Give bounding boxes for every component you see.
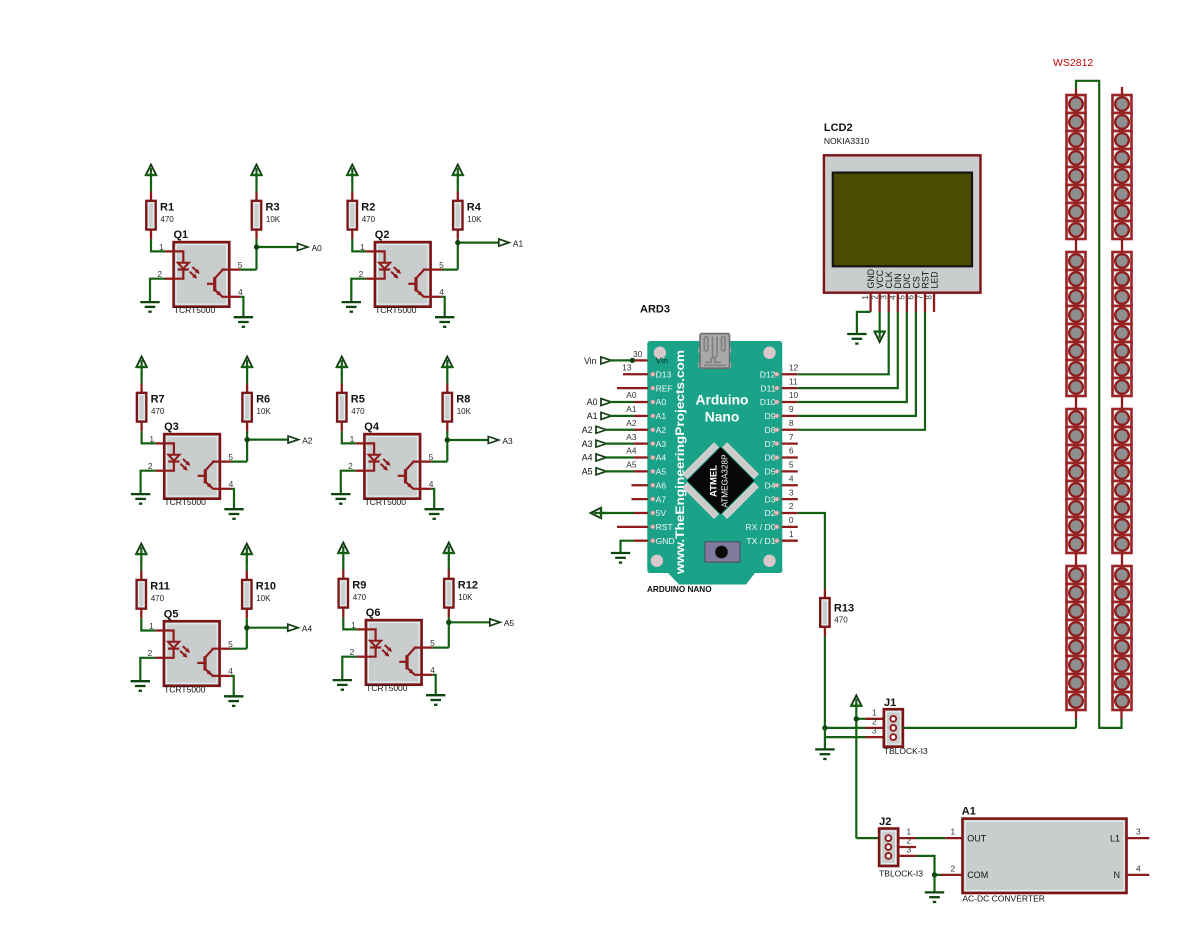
svg-text:470: 470: [151, 407, 165, 416]
wire A4 flag to pin: [605, 456, 634, 458]
right strip bottom stub: [1120, 710, 1122, 719]
ground under Q6 pin 2: [333, 679, 352, 681]
wire Q4 pin 5 to R8: [431, 461, 447, 463]
J1 pin 2 stub: [866, 727, 885, 729]
svg-text:ATMEL: ATMEL: [709, 465, 720, 497]
svg-text:A1: A1: [513, 238, 524, 248]
svg-text:A6: A6: [656, 480, 667, 490]
wire J1 pin1: [856, 718, 865, 720]
svg-text:0: 0: [789, 515, 794, 525]
svg-text:1: 1: [951, 827, 956, 837]
wire R12 to node A5 and Q6 pin 5: [448, 617, 450, 648]
svg-text:4: 4: [789, 473, 794, 483]
Q1 emitted light arrows: [192, 267, 198, 273]
svg-text:2: 2: [789, 501, 794, 511]
wire R3 to node A0 and Q1 pin 5: [255, 239, 257, 270]
wire R9 to Q6 pin 1: [343, 617, 357, 629]
svg-text:TCRT5000: TCRT5000: [164, 497, 206, 507]
resistor R13 470: [824, 589, 826, 599]
svg-text:J1: J1: [884, 697, 896, 709]
svg-text:LCD2: LCD2: [824, 122, 853, 134]
svg-text:9: 9: [789, 404, 794, 414]
Q2 pin 1: [366, 250, 375, 252]
svg-text:A2: A2: [302, 435, 313, 445]
svg-text:Q2: Q2: [375, 229, 390, 241]
svg-text:3: 3: [872, 726, 877, 736]
pin pads: [651, 372, 655, 376]
optocoupler Q2 TCRT5000 body: [375, 242, 431, 307]
svg-text:470: 470: [834, 616, 848, 625]
svg-text:10: 10: [789, 390, 799, 400]
svg-text:2: 2: [870, 295, 879, 300]
svg-text:Nano: Nano: [705, 410, 740, 425]
svg-text:30: 30: [633, 349, 643, 359]
wire node A1 to output flag: [458, 242, 499, 244]
output flag A0: [298, 244, 308, 251]
svg-text:7: 7: [916, 295, 925, 300]
pin D4 stub: [782, 484, 798, 486]
LCD pin 3 stub: [888, 293, 890, 312]
pin D12 stub: [782, 373, 798, 375]
power symbol (down) at LCD VCC: [879, 312, 881, 325]
reset button: [705, 542, 740, 562]
pin A0 stub: [634, 401, 648, 403]
wire Q3 pin 4 to ground: [231, 489, 234, 509]
svg-text:N: N: [1114, 870, 1121, 880]
Q3 emitted light arrows: [183, 459, 189, 465]
wire R11 to Q5 pin 1: [141, 618, 155, 630]
ground under Q3 pin 2: [131, 493, 150, 495]
svg-text:5: 5: [228, 452, 233, 462]
svg-text:TCRT5000: TCRT5000: [366, 683, 408, 693]
pin D11 stub: [782, 387, 798, 389]
svg-text:Q4: Q4: [364, 421, 380, 433]
wire Q2 pin 4 to ground: [442, 297, 445, 317]
svg-text:5: 5: [429, 452, 434, 462]
wire Vin flag to pin 30: [610, 359, 633, 361]
Q2 internal LED: [375, 251, 384, 262]
wire Q5 pin 4 to ground: [231, 676, 234, 696]
svg-text:A5: A5: [656, 467, 667, 477]
Q2 pin 4: [430, 296, 441, 298]
wire LCD CS to Arduino D9: [798, 312, 916, 416]
Q5 emitted light arrows: [183, 646, 189, 652]
svg-text:6: 6: [789, 446, 794, 456]
Q1 pin 2: [165, 278, 174, 280]
svg-text:A1: A1: [626, 404, 637, 414]
wire power to J1 pin 1 and down to J2: [855, 713, 857, 838]
junction node A3: [445, 437, 450, 442]
LED group 4: [1113, 566, 1132, 584]
svg-text:1: 1: [789, 529, 794, 539]
resistor R11 470: [140, 560, 142, 571]
LCD pin 2 stub: [879, 293, 881, 312]
A1 pin L1 stub: [1127, 837, 1150, 839]
svg-text:D11: D11: [760, 383, 775, 393]
wire Q1 pin 4 to ground: [240, 297, 243, 317]
svg-text:A2: A2: [626, 418, 637, 428]
svg-text:A2: A2: [582, 425, 593, 435]
svg-text:RX / D0: RX / D0: [745, 522, 775, 532]
svg-text:D7: D7: [765, 439, 776, 449]
wire R6 to node A2 and Q3 pin 5: [246, 431, 248, 462]
wire R4 to node A1 and Q2 pin 5: [457, 239, 459, 270]
Q2 pin 2: [366, 278, 375, 280]
output flag A2: [288, 436, 298, 443]
wire GND pin to ground: [621, 541, 635, 553]
LED group 2: [1113, 252, 1132, 270]
strip link stub: [1075, 396, 1077, 409]
LCD pin 5 stub: [906, 293, 908, 312]
Q4 pin 2: [356, 470, 365, 472]
svg-text:1: 1: [360, 242, 365, 252]
power symbol (VCC) above R9: [338, 543, 348, 553]
ground under Q4 pin 4: [425, 508, 444, 510]
svg-text:4: 4: [228, 666, 233, 676]
svg-text:13: 13: [622, 362, 632, 372]
Q5 internal phototransistor: [203, 656, 206, 670]
svg-text:R9: R9: [352, 580, 366, 592]
svg-text:LED: LED: [929, 271, 939, 288]
Q6 internal LED: [366, 629, 375, 640]
Q5 pin 1: [155, 629, 164, 631]
wire Q2 pin 2 to ground: [351, 279, 366, 302]
ground below A1: [925, 891, 944, 893]
pin A1 stub: [634, 415, 648, 417]
pin D5 stub: [782, 470, 798, 472]
wire LCD DIN to Arduino D11: [798, 312, 898, 388]
svg-text:AC-DC CONVERTER: AC-DC CONVERTER: [962, 894, 1045, 904]
pin D2 stub: [782, 512, 798, 514]
svg-text:Vin: Vin: [584, 356, 597, 366]
Q2 emitted light arrows: [394, 267, 400, 273]
wire A2 flag to pin: [605, 429, 634, 431]
pin A5 stub: [634, 470, 648, 472]
Q6 pin 1: [357, 628, 366, 630]
svg-text:5: 5: [228, 639, 233, 649]
svg-text:ARD3: ARD3: [640, 303, 670, 315]
svg-text:7: 7: [789, 432, 794, 442]
svg-text:D13: D13: [656, 369, 672, 379]
wire R13 to J1 pin 2 node: [824, 636, 826, 728]
Arduino board: [647, 341, 782, 585]
wire Q3 pin 5 to R6: [231, 461, 247, 463]
svg-text:10K: 10K: [467, 215, 482, 224]
pin D9 stub: [782, 415, 798, 417]
LCD screen: [833, 173, 972, 267]
svg-text:A1: A1: [587, 411, 598, 421]
A1 OUT pin stub: [945, 837, 962, 839]
Q6 pin 4: [421, 674, 432, 676]
svg-text:TCRT5000: TCRT5000: [164, 684, 206, 694]
pin REF stub: [617, 387, 648, 389]
svg-text:4: 4: [1136, 863, 1141, 873]
ground under Q6 pin 4: [426, 694, 445, 696]
svg-text:4: 4: [238, 287, 243, 297]
ground under Q4 pin 2: [331, 493, 350, 495]
LED group 3: [1067, 409, 1086, 427]
Q6 internal phototransistor: [405, 655, 408, 669]
resistor R5 470: [341, 373, 343, 384]
power symbol (VCC) above R8: [442, 357, 452, 367]
wire Q6 pin 2 to ground: [342, 657, 357, 680]
junction node A1: [455, 240, 460, 245]
pin TX / D1 stub: [782, 540, 798, 542]
svg-text:5: 5: [789, 460, 794, 470]
Q1 pin 1: [165, 250, 174, 252]
resistor R6 10K: [246, 373, 248, 384]
svg-text:OUT: OUT: [967, 833, 987, 843]
ground under Q1 pin 2: [140, 301, 159, 303]
Q4 pin 1: [356, 442, 365, 444]
svg-text:R2: R2: [361, 202, 375, 214]
svg-text:10K: 10K: [257, 407, 272, 416]
wire 5V: [601, 512, 634, 514]
output flag A3: [488, 437, 498, 444]
wire A0 flag to pin: [610, 401, 634, 403]
svg-text:5: 5: [897, 295, 906, 300]
Q5 pin 4: [219, 675, 230, 677]
J2 pin 3 stub: [898, 855, 916, 857]
J1 pin 3 stub: [866, 736, 885, 738]
svg-text:3: 3: [1136, 827, 1141, 837]
wire Q5 pin 2 to ground: [140, 658, 155, 681]
svg-text:470: 470: [362, 215, 376, 224]
svg-text:R10: R10: [256, 581, 276, 593]
pin A2 stub: [634, 429, 648, 431]
svg-text:D6: D6: [765, 453, 776, 463]
svg-text:Q3: Q3: [164, 421, 179, 433]
power symbol (VCC) above R3: [251, 165, 261, 175]
Q6 pin 2: [357, 656, 366, 658]
Q3 pin 2: [156, 470, 165, 472]
power symbol (VCC) above R11: [136, 544, 146, 554]
strip link stub: [1075, 239, 1077, 252]
junction at R13/J1: [822, 725, 827, 730]
svg-text:www.TheEngineeringProjects.com: www.TheEngineeringProjects.com: [673, 350, 687, 575]
pin A3 stub: [634, 442, 648, 444]
svg-text:Q1: Q1: [174, 229, 189, 241]
wire Q6 pin 4 to ground: [433, 675, 436, 695]
wire A1 flag to pin: [610, 415, 634, 417]
power symbol (VCC) above R1: [146, 165, 156, 175]
svg-text:R8: R8: [456, 394, 470, 406]
svg-text:4: 4: [888, 295, 897, 300]
svg-text:5V: 5V: [656, 508, 667, 518]
power symbol at J1 pin 1: [851, 695, 861, 705]
Q1 pin 5: [229, 268, 240, 270]
wire node A0 to output flag: [257, 246, 298, 248]
svg-text:REF: REF: [656, 383, 673, 393]
svg-text:D10: D10: [760, 397, 776, 407]
svg-text:A0: A0: [626, 390, 637, 400]
Q3 pin 5: [220, 460, 231, 462]
optocoupler Q5 TCRT5000 body: [164, 621, 220, 686]
power symbol (VCC) above R10: [242, 544, 252, 554]
wire Q2 pin 5 to R4: [442, 269, 458, 271]
svg-text:R6: R6: [256, 394, 270, 406]
resistor R3 10K: [255, 181, 257, 192]
svg-text:WS2812: WS2812: [1053, 57, 1093, 69]
pin RST stub: [617, 526, 648, 528]
svg-text:A3: A3: [656, 439, 667, 449]
svg-text:4: 4: [430, 665, 435, 675]
wire Q5 pin 5 to R10: [231, 648, 247, 650]
LED group 2: [1067, 252, 1086, 270]
svg-text:8: 8: [925, 295, 934, 300]
svg-text:10K: 10K: [256, 594, 271, 603]
ground under Q3 pin 4: [224, 508, 243, 510]
svg-text:Q5: Q5: [164, 608, 179, 620]
wire Q1 pin 2 to ground: [150, 279, 165, 302]
wire A3 flag to pin: [605, 443, 634, 445]
mounting holes: [654, 347, 666, 359]
wire node A3 to output flag: [447, 439, 488, 441]
svg-text:3: 3: [879, 295, 888, 300]
svg-text:A2: A2: [656, 425, 667, 435]
wire strip1 top to strip2 bottom (serpentine): [1076, 81, 1122, 728]
svg-text:R3: R3: [266, 202, 280, 214]
power symbol (VCC) above R6: [242, 357, 252, 367]
svg-text:R1: R1: [160, 202, 174, 214]
LED group 1: [1113, 95, 1132, 113]
svg-text:10K: 10K: [457, 407, 472, 416]
svg-text:Vin: Vin: [656, 356, 668, 366]
power symbol (VCC) above R4: [453, 165, 463, 175]
wire left strip bottom to DIN rail: [1075, 719, 1077, 728]
svg-text:R4: R4: [467, 202, 482, 214]
svg-text:A5: A5: [626, 460, 637, 470]
J1 pin 1 stub: [866, 718, 885, 720]
junction node A0: [254, 244, 259, 249]
LCD body: [824, 155, 981, 292]
A1 COM pin stub: [941, 874, 963, 876]
junction at COM/ground: [932, 872, 937, 877]
svg-text:4: 4: [429, 479, 434, 489]
pin A7 stub: [632, 498, 648, 500]
Q4 emitted light arrows: [383, 459, 389, 465]
svg-text:A3: A3: [626, 432, 637, 442]
svg-text:4: 4: [439, 287, 444, 297]
wire R1 to Q1 pin 1: [151, 239, 165, 251]
resistor R4 10K: [457, 181, 459, 192]
wire node A4 to output flag: [247, 627, 288, 629]
svg-text:1: 1: [351, 620, 356, 630]
svg-text:A1: A1: [656, 411, 667, 421]
svg-text:D5: D5: [765, 467, 776, 477]
svg-text:D12: D12: [760, 369, 776, 379]
svg-text:Q6: Q6: [366, 607, 381, 619]
wire LCD GND to ground: [857, 312, 871, 334]
svg-text:A0: A0: [656, 397, 667, 407]
Q4 pin 4: [420, 488, 431, 490]
wire R10 to node A4 and Q5 pin 5: [246, 618, 248, 649]
wire Q4 pin 4 to ground: [431, 489, 434, 509]
svg-text:A4: A4: [582, 453, 593, 463]
svg-text:Arduino: Arduino: [696, 393, 749, 408]
Q1 internal LED: [174, 251, 183, 262]
svg-text:6: 6: [907, 295, 916, 300]
ground under Q5 pin 4: [224, 695, 243, 697]
ground under Q1 pin 4: [234, 316, 253, 318]
svg-text:A7: A7: [656, 494, 667, 504]
svg-text:A4: A4: [656, 453, 667, 463]
svg-text:470: 470: [151, 594, 165, 603]
wire Q3 pin 2 to ground: [141, 471, 156, 494]
LCD pin 7 stub: [924, 293, 926, 312]
svg-text:3: 3: [907, 845, 912, 855]
J2 pin 1 stub: [898, 837, 916, 839]
svg-text:A0: A0: [587, 397, 598, 407]
junction node A4: [244, 625, 249, 630]
wire junction to ground: [824, 728, 826, 749]
5V power arrow (left): [591, 508, 601, 518]
LCD pin 1 stub: [869, 293, 871, 312]
Q3 internal LED: [165, 443, 174, 454]
LCD pin 4 stub: [897, 293, 899, 312]
wire ground rail to J1 pin 3: [825, 736, 866, 738]
svg-text:5: 5: [430, 638, 435, 648]
Q1 pin 4: [229, 296, 240, 298]
svg-text:1: 1: [159, 242, 164, 252]
wire LCD CLK to Arduino D12: [798, 312, 889, 374]
wire node to J1 pin 2: [825, 727, 866, 729]
right strip top stub (data out): [1121, 87, 1123, 95]
pin D7 stub: [782, 442, 798, 444]
strip link stub: [1121, 396, 1123, 409]
junction node A5: [446, 620, 451, 625]
svg-text:A1: A1: [962, 806, 976, 818]
pin A4 stub: [634, 456, 648, 458]
svg-text:R11: R11: [150, 581, 170, 593]
svg-text:D4: D4: [765, 480, 776, 490]
LED group 4: [1067, 566, 1086, 584]
resistor R9 470: [342, 559, 344, 570]
resistor R2 470: [351, 181, 353, 192]
wire R7 to Q3 pin 1: [142, 431, 156, 443]
svg-text:1: 1: [149, 621, 154, 631]
svg-text:NOKIA3310: NOKIA3310: [824, 136, 870, 146]
power symbol (VCC) above R2: [347, 165, 357, 175]
svg-text:1: 1: [149, 434, 154, 444]
Q2 internal phototransistor: [414, 277, 417, 291]
pin D8 stub: [782, 429, 798, 431]
output flag A4: [288, 624, 298, 631]
junction at J1 pin 1: [854, 716, 859, 721]
Q6 emitted light arrows: [385, 645, 391, 651]
resistor R7 470: [141, 373, 143, 384]
wire J2 pin 1 to A1 OUT: [916, 837, 945, 839]
wire A5 flag to pin: [605, 470, 634, 472]
svg-text:TBLOCK-I3: TBLOCK-I3: [884, 746, 928, 756]
svg-text:D9: D9: [765, 411, 776, 421]
wire R8 to node A3 and Q4 pin 5: [446, 431, 448, 462]
wire Q1 pin 5 to R3: [240, 269, 256, 271]
svg-text:D2: D2: [765, 508, 776, 518]
A1 pin N stub: [1127, 874, 1150, 876]
svg-text:R5: R5: [351, 394, 365, 406]
svg-text:11: 11: [789, 376, 798, 386]
svg-text:ATMEGA328P: ATMEGA328P: [721, 454, 730, 508]
Q3 pin 1: [156, 442, 165, 444]
svg-text:D8: D8: [765, 425, 776, 435]
svg-text:5: 5: [439, 260, 444, 270]
power symbol (VCC) above R12: [444, 543, 454, 553]
pin 5V stub: [634, 512, 648, 514]
optocoupler Q3 TCRT5000 body: [164, 434, 220, 499]
svg-text:R12: R12: [458, 580, 478, 592]
Q3 pin 4: [220, 488, 231, 490]
